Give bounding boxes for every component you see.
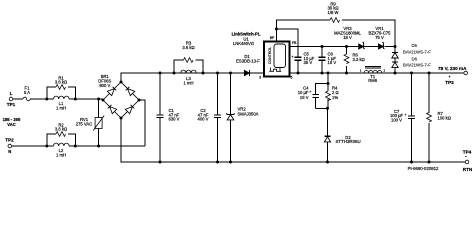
resistor R4 (316, 84, 339, 137)
inductor L1 (45, 96, 77, 110)
inductor L2 (45, 143, 77, 157)
capacitor C2 (198, 72, 221, 164)
diode D6 (392, 56, 431, 74)
svg-text:5 A: 5 A (24, 90, 30, 95)
svg-text:L: L (10, 91, 13, 96)
capacitor C5 (292, 52, 315, 75)
bridge BR1 labels (98, 74, 111, 88)
capacitor C1 (157, 72, 180, 164)
svg-text:5: 5 (291, 75, 293, 79)
svg-text:3: 3 (259, 75, 261, 79)
svg-text:3.6 kΩ: 3.6 kΩ (55, 80, 67, 85)
wire FB line (290, 46, 359, 48)
bridge vertex junctions (102, 99, 105, 102)
svg-text:+: + (309, 90, 311, 94)
wire BP branch to C5 (276, 29, 298, 56)
diode D1 (236, 54, 260, 76)
svg-text:BAV21WS-7-F: BAV21WS-7-F (403, 62, 431, 67)
svg-text:400 V: 400 V (198, 117, 209, 122)
svg-text:+: + (405, 113, 407, 117)
svg-text:1 mH: 1 mH (56, 152, 66, 157)
resistor R1 (47, 75, 76, 99)
svg-text:3.6 kΩ: 3.6 kΩ (182, 45, 194, 50)
svg-text:16 V: 16 V (300, 95, 309, 100)
wire N riser to bridge right vertex (139, 100, 145, 146)
op-amp U1 LinkSwitch-PL IC (259, 36, 297, 80)
svg-text:1 mH: 1 mH (183, 80, 193, 85)
svg-text:+: + (448, 75, 450, 79)
svg-text:630 V: 630 V (169, 117, 180, 122)
snubber bracket C4 R4 (316, 72, 330, 95)
svg-text:75 V: 75 V (375, 35, 384, 40)
node N terminal TP2 (5, 137, 14, 154)
svg-text:78 V, 230 mA: 78 V, 230 mA (438, 66, 467, 71)
IC U1 labels (232, 32, 261, 46)
resistor R3 (174, 41, 203, 73)
capacitor C7 (390, 72, 415, 164)
diode lower-right (125, 104, 134, 113)
zener VR2 (226, 72, 258, 164)
fuse F1 (23, 86, 30, 101)
node junction RV1 top (97, 98, 100, 101)
diode D5 (392, 43, 431, 58)
diode lower-left (107, 104, 116, 113)
svg-text:RTN: RTN (463, 167, 473, 172)
svg-text:ES3DB-13-F: ES3DB-13-F (236, 58, 260, 63)
svg-text:VAC: VAC (7, 122, 16, 127)
svg-text:+: + (292, 55, 294, 59)
resistor R9 (327, 1, 339, 22)
svg-text:TP2: TP2 (5, 137, 14, 142)
svg-text:TP1: TP1 (7, 102, 16, 107)
wire source line from IC to output (290, 72, 464, 74)
transformer T1 (360, 67, 386, 84)
svg-text:N: N (8, 149, 11, 154)
wire TP2 to R2 box (12, 145, 47, 147)
zener VR3 (334, 26, 364, 49)
node L terminal TP1 (7, 91, 16, 107)
wire bridge top vertex to DC+ rail (121, 73, 264, 82)
wire fuse to node (30, 98, 47, 100)
svg-text:LNK460VG: LNK460VG (233, 41, 254, 46)
svg-text:275 VAC: 275 VAC (76, 121, 92, 126)
svg-text:100 V: 100 V (391, 118, 402, 123)
wire bridge bottom vertex to DC- rail (121, 118, 467, 162)
svg-text:SMAJ350A: SMAJ350A (238, 112, 259, 117)
svg-text:3.6 kΩ: 3.6 kΩ (55, 127, 67, 132)
svg-text:100 kΩ: 100 kΩ (438, 115, 451, 120)
terminal TP4 RTN (463, 149, 473, 172)
diode upper-right (125, 86, 134, 95)
svg-text:STTH3R06U: STTH3R06U (336, 139, 361, 144)
wire TP1 to fuse (13, 98, 23, 100)
capacitor C6 (319, 45, 337, 75)
svg-text:TP3: TP3 (445, 80, 454, 85)
svg-text:35 V: 35 V (304, 60, 313, 65)
capacitor C4 (298, 85, 319, 108)
svg-text:800 V: 800 V (99, 83, 110, 88)
svg-text:16 V: 16 V (328, 60, 337, 65)
resistor R6 (344, 45, 365, 75)
terminal TP3 (445, 71, 467, 85)
resistor R2 (47, 122, 76, 146)
resistor R7 (427, 72, 451, 164)
svg-text:1/8 W: 1/8 W (328, 10, 339, 15)
svg-text:PI-6690-020812: PI-6690-020812 (408, 166, 439, 171)
svg-text:D6: D6 (412, 56, 418, 61)
svg-text:18 V: 18 V (343, 35, 352, 40)
svg-text:1%: 1% (332, 95, 338, 100)
svg-text:RM6: RM6 (368, 78, 378, 83)
wire N to bridge riser (75, 145, 145, 147)
diode D2 (324, 135, 360, 164)
varistor RV1 (76, 99, 104, 148)
node 185-265 VAC label (3, 117, 21, 127)
wire to RV1 node (75, 98, 103, 100)
wire R9 to right, down to FB node (342, 20, 395, 47)
svg-text:D5: D5 (412, 43, 418, 48)
svg-text:1 mH: 1 mH (56, 105, 66, 110)
svg-text:BAV21WS-7-F: BAV21WS-7-F (403, 50, 431, 55)
wire BP riser and top run to R9 (276, 20, 330, 42)
svg-text:BP: BP (270, 36, 275, 40)
diode upper-left (107, 86, 116, 95)
svg-text:FB: FB (292, 41, 297, 45)
zener VR1 (364, 26, 397, 49)
svg-text:CONTROL: CONTROL (268, 47, 272, 64)
svg-text:−: − (465, 154, 467, 158)
inductor L3 (173, 70, 205, 85)
bridge rectifier BR1 (102, 81, 141, 120)
svg-text:3.3 kΩ: 3.3 kΩ (353, 57, 365, 62)
